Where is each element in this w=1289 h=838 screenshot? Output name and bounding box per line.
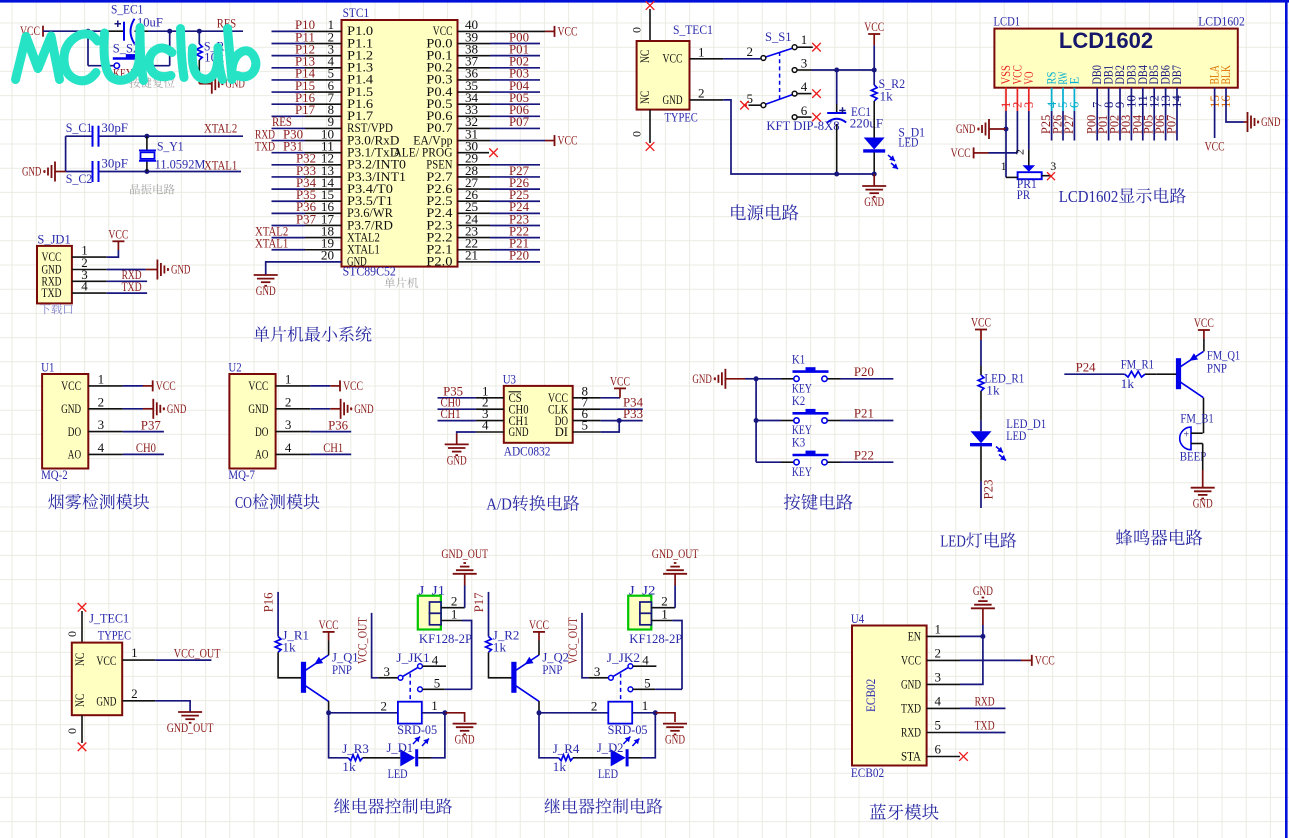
svg-text:1: 1 [451,607,458,622]
svg-text:VCC: VCC [663,51,683,66]
svg-text:GND: GND [956,122,975,136]
svg-text:1: 1 [1001,159,1007,173]
svg-text:2: 2 [381,698,388,713]
svg-text:TXD: TXD [901,701,921,716]
svg-text:KFT DIP-8X8: KFT DIP-8X8 [766,118,839,133]
svg-text:J_R3: J_R3 [342,741,369,756]
svg-text:1: 1 [642,698,649,713]
svg-text:VCC: VCC [96,653,116,668]
svg-text:1: 1 [98,371,105,386]
svg-text:LED: LED [1006,428,1026,443]
svg-text:GND: GND [1193,496,1213,511]
svg-text:K1: K1 [792,351,805,366]
svg-text:6: 6 [801,103,808,118]
svg-text:NC: NC [637,91,652,104]
svg-text:TXD: TXD [975,718,995,733]
svg-text:J_JK2: J_JK2 [607,650,640,665]
svg-text:DB7: DB7 [1170,65,1184,84]
svg-text:1: 1 [801,32,808,47]
svg-text:LED: LED [940,532,966,551]
svg-text:1k: 1k [493,640,507,655]
svg-text:P17: P17 [471,592,486,612]
svg-text:CO: CO [235,493,252,512]
svg-text:XTAL2: XTAL2 [204,120,237,135]
svg-text:GND: GND [347,255,367,269]
svg-text:LED: LED [598,766,618,781]
svg-text:VCC: VCC [343,378,363,393]
svg-text:LED: LED [388,766,408,781]
svg-text:PNP: PNP [1207,360,1227,375]
svg-text:4: 4 [801,79,808,94]
svg-text:4: 4 [98,440,105,455]
svg-text:GND_OUT: GND_OUT [441,546,488,561]
svg-text:2: 2 [698,85,705,100]
svg-text:2: 2 [935,645,942,660]
svg-text:U1: U1 [41,360,54,375]
svg-text:TXD: TXD [42,285,62,300]
svg-text:VCC: VCC [61,378,81,393]
svg-text:P37: P37 [296,211,316,226]
svg-text:3: 3 [801,56,808,71]
svg-text:PNP: PNP [332,662,352,677]
svg-text:4: 4 [432,653,439,668]
svg-text:GND: GND [354,402,373,416]
svg-text:VCC: VCC [610,373,630,388]
svg-text:5: 5 [582,418,589,433]
svg-text:4: 4 [482,418,489,433]
svg-text:5: 5 [434,675,441,690]
svg-text:GND_OUT: GND_OUT [167,720,214,735]
svg-text:2: 2 [591,698,598,713]
svg-text:2: 2 [747,44,754,59]
svg-text:4: 4 [935,693,942,708]
svg-text:1k: 1k [282,640,296,655]
svg-text:U4: U4 [851,611,865,626]
svg-text:1: 1 [431,698,438,713]
svg-text:LCD1602: LCD1602 [1059,187,1119,206]
svg-text:2: 2 [285,394,292,409]
svg-text:XTAL1: XTAL1 [255,236,288,251]
svg-text:VCC: VCC [558,23,578,38]
svg-text:P20: P20 [509,248,529,263]
svg-text:P37: P37 [141,417,161,432]
svg-text:DO: DO [255,424,268,439]
svg-text:VCC: VCC [1035,652,1055,667]
svg-text:P27: P27 [1062,115,1076,134]
svg-text:GND: GND [973,583,993,598]
svg-text:3: 3 [935,669,942,684]
svg-text:1k: 1k [1121,376,1135,391]
svg-text:J_D2: J_D2 [597,740,624,755]
svg-text:GND: GND [455,732,475,747]
svg-text:VCC: VCC [558,133,578,148]
svg-text:VCC: VCC [864,19,884,34]
svg-text:S_C1: S_C1 [66,120,93,135]
svg-text:J_R4: J_R4 [553,741,580,756]
svg-text:VCC: VCC [248,378,268,393]
svg-text:GND: GND [167,402,186,416]
svg-text:VCC: VCC [1205,138,1225,153]
svg-text:20: 20 [321,249,334,263]
svg-text:2: 2 [1013,149,1027,155]
svg-text:GND: GND [61,401,81,416]
svg-text:S_EC1: S_EC1 [111,3,143,17]
svg-text:NC: NC [637,50,652,63]
svg-text:3: 3 [594,664,601,679]
svg-text:CH1: CH1 [323,440,343,455]
svg-text:6: 6 [935,742,942,757]
svg-text:FM_R1: FM_R1 [1121,356,1154,371]
svg-text:EN: EN [908,629,922,644]
svg-text:30pF: 30pF [101,156,128,171]
svg-text:VCC_OUT: VCC_OUT [174,645,221,660]
svg-text:LCD1602: LCD1602 [1059,28,1153,53]
svg-text:TXD: TXD [122,279,142,294]
svg-text:VCC_OUT: VCC_OUT [565,617,580,664]
svg-text:P16: P16 [261,592,276,612]
svg-text:0: 0 [65,631,79,637]
svg-text:S_TEC1: S_TEC1 [673,22,713,37]
svg-text:GND: GND [665,732,685,747]
svg-text:PR: PR [1017,187,1031,202]
svg-text:K3: K3 [792,435,805,450]
svg-text:VCC: VCC [971,315,991,330]
svg-text:P2.0: P2.0 [426,255,452,269]
svg-text:AO: AO [255,447,268,462]
svg-text:GND: GND [248,401,268,416]
svg-text:VCC: VCC [951,145,971,160]
svg-text:KF128-2P: KF128-2P [629,631,682,646]
svg-text:TYPEC: TYPEC [98,628,131,643]
svg-text:SRD-05: SRD-05 [397,722,437,737]
svg-text:XTAL1: XTAL1 [204,157,237,172]
svg-text:AO: AO [68,447,81,462]
svg-text:LCD1602: LCD1602 [1198,14,1245,29]
svg-text:0: 0 [630,27,644,33]
svg-text:LCD1: LCD1 [994,14,1021,29]
svg-text:VCC: VCC [901,653,921,668]
svg-text:30pF: 30pF [101,120,128,135]
svg-text:GND: GND [447,452,467,467]
svg-text:NC: NC [72,653,87,666]
svg-text:STA: STA [901,749,922,764]
svg-text:3: 3 [285,417,292,432]
svg-text:GND: GND [663,92,683,107]
svg-text:VCC_OUT: VCC_OUT [355,617,370,664]
svg-text:1: 1 [935,621,942,636]
svg-text:J_JK1: J_JK1 [396,650,429,665]
svg-text:S_Y1: S_Y1 [157,139,184,154]
svg-text:BLK: BLK [1219,65,1233,84]
svg-text:GND: GND [692,372,711,386]
svg-text:S_S1: S_S1 [765,29,792,44]
svg-text:RXD: RXD [901,725,921,740]
svg-text:U3: U3 [503,371,516,386]
svg-text:GND: GND [1261,115,1280,129]
svg-text:VCC: VCC [319,617,339,632]
svg-text:1k: 1k [342,759,356,774]
svg-text:VO: VO [1022,72,1036,85]
svg-text:1: 1 [131,645,138,660]
svg-text:ADC0832: ADC0832 [504,444,551,459]
svg-text:J_D1: J_D1 [387,740,414,755]
svg-text:S_JD1: S_JD1 [37,232,70,247]
svg-text:RXD: RXD [975,694,995,709]
svg-text:GND: GND [256,283,276,298]
svg-text:5: 5 [644,675,651,690]
svg-text:3: 3 [384,664,391,679]
svg-text:P17: P17 [295,102,315,117]
svg-text:E: E [1067,77,1081,85]
svg-text:CH0: CH0 [136,440,156,455]
svg-text:KEY: KEY [792,464,812,479]
svg-text:GND: GND [96,694,116,709]
svg-text:VCC: VCC [156,378,176,393]
svg-text:TYPEC: TYPEC [665,110,698,125]
svg-text:VCC: VCC [529,617,549,632]
svg-text:FM_B1: FM_B1 [1180,411,1213,426]
svg-text:P36: P36 [328,417,348,432]
svg-text:0: 0 [630,131,644,137]
svg-text:3: 3 [1050,159,1056,173]
svg-text:A/D: A/D [486,495,512,514]
svg-text:4: 4 [642,653,649,668]
svg-text:KF128-2P: KF128-2P [419,631,472,646]
svg-text:DO: DO [68,424,81,439]
svg-text:+: + [1184,430,1190,441]
svg-text:U2: U2 [228,360,241,375]
svg-text:GND: GND [22,165,41,179]
svg-text:J_TEC1: J_TEC1 [89,611,129,626]
svg-text:MQ-2: MQ-2 [41,467,68,482]
svg-text:ECB02: ECB02 [863,679,878,712]
svg-text:1: 1 [285,371,292,386]
svg-text:2: 2 [131,686,138,701]
svg-text:P23: P23 [980,480,995,500]
svg-text:3: 3 [98,417,105,432]
svg-text:5: 5 [935,718,942,733]
svg-text:220uF: 220uF [850,116,883,131]
svg-text:P07: P07 [509,114,529,129]
svg-text:GND: GND [901,677,921,692]
svg-text:GND: GND [171,263,190,277]
svg-text:1: 1 [698,44,705,59]
svg-text:TXD: TXD [255,139,275,154]
svg-text:5: 5 [747,91,754,106]
svg-text:11.0592M: 11.0592M [155,158,206,172]
svg-text:STC1: STC1 [343,5,370,20]
svg-text:GND_OUT: GND_OUT [652,546,699,561]
svg-text:VCC: VCC [108,226,128,241]
svg-text:K2: K2 [792,393,805,408]
svg-text:SRD-05: SRD-05 [608,722,648,737]
svg-text:P22: P22 [854,447,874,462]
svg-text:P24: P24 [1076,359,1096,374]
svg-text:1k: 1k [880,89,894,104]
svg-text:2: 2 [98,394,105,409]
svg-text:0: 0 [65,728,79,734]
svg-text:P21: P21 [854,406,874,421]
svg-text:VCC: VCC [1194,315,1214,330]
svg-text:LED: LED [898,134,918,149]
svg-text:P07: P07 [1165,115,1179,134]
svg-text:MQ-7: MQ-7 [228,467,255,482]
svg-text:GND: GND [864,194,884,209]
svg-text:1: 1 [661,607,668,622]
svg-text:S_C2: S_C2 [66,171,93,186]
svg-text:1k: 1k [986,382,1000,397]
svg-text:CH1: CH1 [441,406,461,421]
svg-text:DI: DI [555,424,568,439]
svg-text:1k: 1k [553,759,567,774]
svg-text:PNP: PNP [542,662,562,677]
svg-text:NC: NC [72,694,87,707]
svg-text:4: 4 [81,279,88,294]
svg-text:ECB02: ECB02 [851,765,884,780]
svg-text:P33: P33 [623,406,643,421]
svg-text:21: 21 [465,249,478,263]
svg-text:4: 4 [285,440,292,455]
svg-text:GND: GND [509,424,529,439]
svg-text:P20: P20 [854,364,874,379]
